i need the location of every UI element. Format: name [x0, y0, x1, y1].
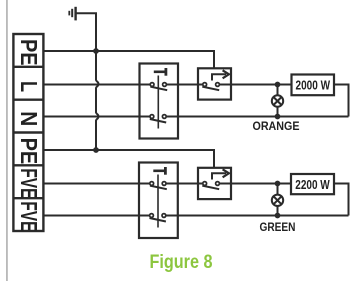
svg-text:GREEN: GREEN [260, 220, 296, 234]
svg-text:N: N [16, 111, 42, 126]
svg-text:ORANGE: ORANGE [253, 121, 300, 133]
svg-text:2200 W: 2200 W [295, 177, 330, 192]
svg-text:2000 W: 2000 W [296, 78, 331, 93]
svg-text:L: L [16, 81, 42, 92]
svg-text:Figure 8: Figure 8 [150, 251, 213, 273]
svg-text:FVE: FVE [16, 168, 42, 198]
svg-text:PE: PE [16, 138, 42, 165]
svg-text:PE: PE [16, 39, 42, 66]
svg-text:FVE: FVE [16, 201, 42, 231]
